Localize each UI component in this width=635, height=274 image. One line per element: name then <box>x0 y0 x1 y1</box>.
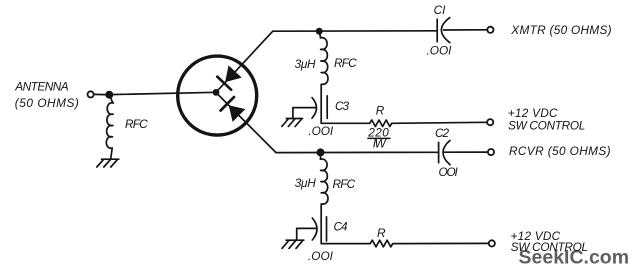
svg-text:.OOI: .OOI <box>308 124 334 138</box>
svg-text:RFC: RFC <box>333 177 356 191</box>
wire upper coil down to corner and right to R <box>321 85 370 124</box>
wire R to +12 VDC terminal (upper) <box>392 122 487 123</box>
svg-text:R: R <box>376 104 385 118</box>
ground (C3) <box>282 119 303 127</box>
node top line junction dot <box>316 28 323 35</box>
capacitor C1 plate (curved) <box>441 18 449 43</box>
svg-text:R: R <box>377 226 386 240</box>
capacitor C2 plate (curved) <box>443 140 450 164</box>
svg-text:SW CONTROL: SW CONTROL <box>511 240 588 254</box>
underline for 220 <box>367 137 390 139</box>
ground (C4) <box>282 240 304 248</box>
svg-text:.OOI: .OOI <box>427 44 453 58</box>
terminal RCVR (open circle) <box>488 149 494 155</box>
capacitor C1 plate (straight) <box>436 19 438 42</box>
wire C1 to XMTR terminal <box>444 29 488 31</box>
svg-text:XMTR (50 OHMS): XMTR (50 OHMS) <box>510 23 612 37</box>
node diode center dot <box>213 89 220 96</box>
svg-text:RCVR (50 OHMS): RCVR (50 OHMS) <box>509 144 611 158</box>
wire RCVR horizontal line to C2 <box>276 151 438 153</box>
wire coil to ground <box>111 148 113 159</box>
resistor R (upper 220 ohm) <box>370 120 392 127</box>
svg-text:RFC: RFC <box>334 56 357 70</box>
diode D2 (lower, cathode bar toward center) <box>221 97 246 122</box>
svg-text:C2: C2 <box>435 126 450 140</box>
capacitor C3 plate (straight) <box>326 96 328 119</box>
svg-text:C4: C4 <box>334 220 349 234</box>
wire C2 to RCVR terminal <box>445 151 488 153</box>
wire junction down to RFC coil <box>110 95 113 103</box>
svg-text:OOI: OOI <box>439 165 459 179</box>
capacitor C2 plate (straight) <box>438 142 440 162</box>
terminal XMTR (open circle) <box>487 27 493 33</box>
inductor RFC 3uH (lower) <box>320 159 328 204</box>
capacitor C4 plate (straight) <box>326 217 328 241</box>
node antenna junction dot <box>105 91 113 99</box>
wire C3 to ground <box>293 108 315 119</box>
terminal +12 VDC upper (open circle) <box>487 119 493 125</box>
svg-text:3μH: 3μH <box>295 57 316 71</box>
svg-text:(50 OHMS): (50 OHMS) <box>15 96 80 110</box>
inductor RFC (antenna shunt coil) <box>106 103 113 148</box>
wire top junction down to upper 3uH coil <box>319 31 320 38</box>
wire R to +12 VDC terminal (lower) <box>394 242 489 244</box>
resistor R (lower) <box>370 240 393 247</box>
svg-text:CI: CI <box>434 3 447 17</box>
capacitor C3 plate (curved) <box>312 98 317 119</box>
svg-text:RFC: RFC <box>125 117 148 131</box>
inductor RFC 3uH (upper) <box>320 38 328 85</box>
wire C4 to ground <box>297 228 316 240</box>
node RCVR line junction dot <box>317 148 325 156</box>
wire lower diagonal from center node to RCVR line <box>216 93 276 153</box>
wire lower coil down to corner and right to R <box>321 204 370 244</box>
wire antenna terminal to junction <box>94 93 105 95</box>
svg-text:ANTENNA: ANTENNA <box>14 80 69 94</box>
ground (antenna RFC) <box>97 159 119 167</box>
terminal +12 VDC lower (open circle) <box>489 240 495 246</box>
wire top horizontal line to C1 <box>273 30 437 32</box>
diode circle D1/D2 package <box>178 56 257 135</box>
wire junction to diode circle center <box>109 92 216 94</box>
svg-text:.OOI: .OOI <box>308 249 334 263</box>
capacitor C4 plate (curved) <box>312 218 317 240</box>
wire RCVR junction down to lower 3uH coil <box>320 157 322 160</box>
diode D1 (upper, cathode bar toward center) <box>217 65 241 89</box>
terminal ANTENNA (open circle) <box>88 91 94 97</box>
svg-text:3μH: 3μH <box>295 176 316 190</box>
svg-text:SW CONTROL: SW CONTROL <box>508 118 585 132</box>
wire upper diagonal from center node to top line <box>216 31 273 92</box>
svg-text:C3: C3 <box>335 99 350 113</box>
